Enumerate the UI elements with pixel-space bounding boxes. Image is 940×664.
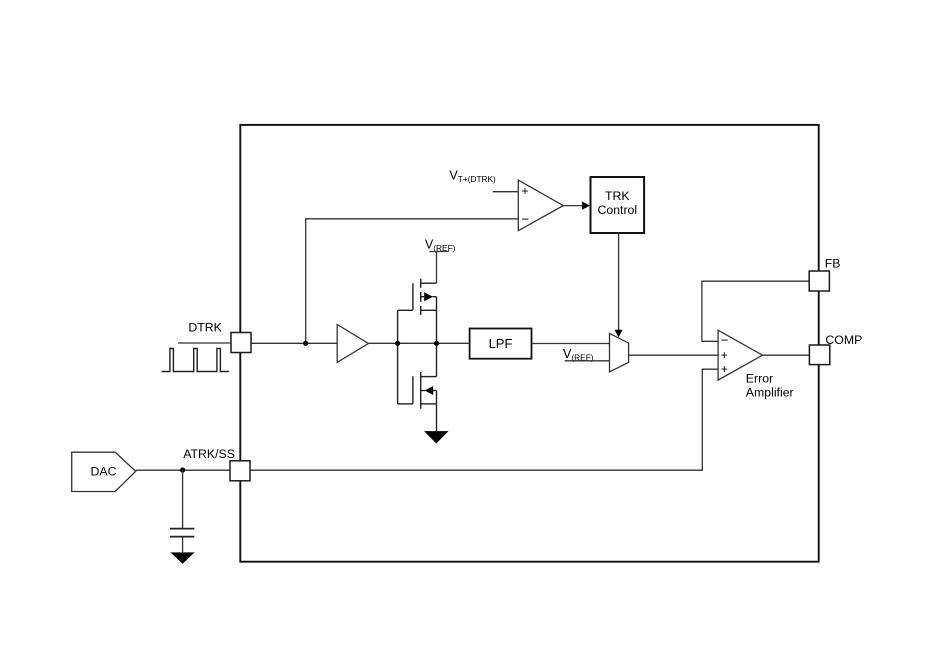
wire: M2 gate connect bbox=[398, 403, 413, 405]
IC boundary box bbox=[240, 125, 818, 562]
svg-text:FB: FB bbox=[825, 256, 841, 270]
node: DTRK branch junction bbox=[303, 341, 308, 346]
wire: DAC to ATRK/SS pad bbox=[136, 469, 230, 471]
svg-text:−: − bbox=[721, 333, 729, 348]
DAC block bbox=[72, 452, 136, 491]
wire: FB feedback to error amp inverting input bbox=[702, 281, 809, 341]
buffer A1 bbox=[337, 325, 368, 363]
wire: V(REF) rail down to M1 drain bbox=[436, 252, 438, 284]
svg-text:+: + bbox=[721, 362, 728, 376]
svg-text:Control: Control bbox=[597, 203, 637, 217]
wire: DTRK lead-in bbox=[178, 342, 231, 344]
LPF box bbox=[470, 329, 532, 359]
pad FB bbox=[809, 271, 829, 291]
pad COMP bbox=[809, 345, 829, 365]
TRK Control box U2 bbox=[591, 177, 645, 233]
svg-text:COMP: COMP bbox=[825, 333, 862, 347]
M1 bulk arrow (points right) bbox=[424, 292, 433, 301]
svg-text:−: − bbox=[522, 212, 530, 227]
pad ATRK/SS bbox=[230, 461, 250, 481]
svg-text:Error: Error bbox=[746, 372, 773, 386]
wire: mux to error amp bbox=[629, 354, 719, 356]
pad DTRK bbox=[231, 333, 251, 353]
svg-text:ATRK/SS: ATRK/SS bbox=[183, 447, 235, 461]
wire: ATRK/SS to error amp noninverting input bbox=[250, 369, 718, 470]
ground under capacitor bbox=[171, 552, 195, 563]
node: source follower output junction bbox=[434, 341, 439, 346]
svg-text:+: + bbox=[721, 348, 728, 362]
DTRK input waveform bbox=[162, 349, 229, 372]
transistor M1 (top, dashed channel) bbox=[413, 279, 437, 344]
svg-text:DAC: DAC bbox=[91, 465, 117, 479]
error amplifier bbox=[718, 330, 762, 380]
wire: buffer to LPF bbox=[368, 342, 468, 344]
wire: VT+ input to comparator bbox=[493, 191, 519, 193]
node: ATRK/SS branch junction bbox=[180, 467, 185, 472]
wire: M1 gate connect bbox=[398, 309, 413, 311]
svg-text:LPF: LPF bbox=[489, 336, 513, 351]
wire: branch up to comparator minus input bbox=[306, 219, 519, 343]
wire: V(REF) stub to mux bbox=[565, 360, 610, 362]
wire: error amp output to COMP bbox=[763, 354, 810, 356]
wire: LPF to mux bbox=[532, 343, 609, 345]
wire: DTRK pad to buffer bbox=[251, 342, 337, 344]
svg-text:DTRK: DTRK bbox=[188, 321, 222, 335]
mux bbox=[610, 333, 629, 372]
wire: comparator output with arrowhead bbox=[563, 205, 583, 207]
V(REF) supply rail bar bbox=[429, 251, 448, 253]
comparator U1 bbox=[518, 180, 563, 231]
wire: gate rail bbox=[397, 310, 399, 404]
svg-text:Amplifier: Amplifier bbox=[746, 386, 794, 400]
M2 bulk arrow (points left) bbox=[425, 386, 434, 395]
svg-text:+: + bbox=[522, 184, 529, 198]
svg-text:TRK: TRK bbox=[605, 189, 630, 203]
wire: TRK Control to mux select (arrow down) bbox=[618, 234, 620, 331]
node: gate rail junction bbox=[395, 341, 400, 346]
capacitor C1 bbox=[182, 470, 184, 528]
transistor M2 (bottom, solid channel) bbox=[413, 343, 437, 431]
ground under M2 bbox=[424, 431, 448, 443]
